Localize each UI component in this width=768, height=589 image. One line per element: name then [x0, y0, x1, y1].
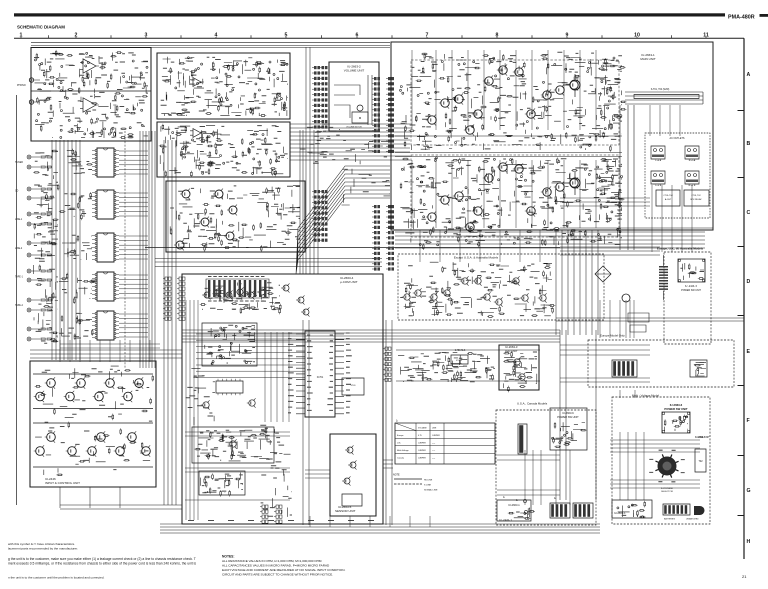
- svg-text:6: 6: [356, 33, 359, 39]
- svg-text:Δ: Δ: [396, 420, 398, 423]
- svg-text:FUSE UNIT: FUSE UNIT: [697, 437, 710, 439]
- svg-text:IU -2443- 6: IU -2443- 6: [685, 285, 698, 288]
- svg-text:A-CHT: A-CHT: [665, 198, 672, 201]
- svg-text:MAIN UNIT: MAIN UNIT: [640, 57, 656, 61]
- svg-text:CD: CD: [15, 191, 19, 193]
- svg-text:IU-2663-1: IU-2663-1: [508, 503, 520, 507]
- svg-text:LINE-2: LINE-2: [15, 248, 23, 250]
- svg-text:CT01,T02: CT01,T02: [691, 195, 701, 197]
- svg-text:JUMPER: JUMPER: [418, 458, 426, 460]
- svg-text:IU -2443- 1: IU -2443- 1: [499, 518, 513, 522]
- svg-text:-----: -----: [432, 458, 436, 460]
- svg-text:-----: -----: [432, 443, 436, 445]
- svg-text:U.S.: U.S.: [397, 443, 401, 445]
- svg-text:-----: -----: [432, 450, 436, 452]
- svg-text:X701: X701: [350, 385, 356, 387]
- svg-text:Multi-Voltage: Multi-Voltage: [397, 449, 409, 452]
- svg-text:4.75: 4.75: [418, 435, 422, 437]
- svg-text:LED UNIT: LED UNIT: [505, 349, 518, 353]
- svg-text:VOLUME UNIT: VOLUME UNIT: [344, 69, 365, 73]
- svg-text:21: 21: [742, 574, 747, 579]
- svg-text:POWER SW UNIT: POWER SW UNIT: [557, 415, 579, 419]
- svg-text:PHONO: PHONO: [17, 84, 26, 87]
- svg-text:CIRCUIT AND PARTS ARE SUBJECT: CIRCUIT AND PARTS ARE SUBJECT TO CHANGE …: [222, 573, 333, 577]
- svg-text:VOLTAGE: VOLTAGE: [418, 426, 427, 429]
- svg-text:R-ch B: R-ch B: [689, 185, 696, 187]
- svg-text:IU-2663-1: IU-2663-1: [614, 511, 626, 515]
- svg-text:SELECTOR: SELECTOR: [661, 491, 673, 493]
- svg-text:M: M: [359, 116, 362, 120]
- svg-text:NOTES:: NOTES:: [222, 555, 234, 559]
- svg-text:G: G: [747, 488, 751, 494]
- svg-text:JUMPER: JUMPER: [432, 435, 440, 437]
- svg-text:SENSOR UNIT: SENSOR UNIT: [335, 509, 356, 513]
- svg-text:D: D: [747, 279, 751, 285]
- svg-text:SPK RELAY: SPK RELAY: [690, 198, 702, 201]
- svg-text:H0 LINE: H0 LINE: [424, 480, 433, 482]
- svg-text:L-ch A: L-ch A: [655, 159, 662, 162]
- svg-text:TAPE-2: TAPE-2: [15, 304, 24, 307]
- svg-text:Δ: Δ: [503, 496, 505, 499]
- svg-text:VOLUME MOTOR: VOLUME MOTOR: [346, 127, 362, 129]
- svg-text:LINE: LINE: [432, 427, 437, 429]
- svg-text:5: 5: [285, 33, 288, 39]
- svg-text:Except U.S.A. & Australia Mode: Except U.S.A. & Australia Models: [454, 256, 499, 260]
- svg-text:LINE-1: LINE-1: [15, 219, 23, 221]
- svg-text:3: 3: [145, 33, 148, 39]
- svg-text:POWER SW UNIT: POWER SW UNIT: [681, 289, 701, 292]
- svg-text:U.S.A., Canada Models: U.S.A., Canada Models: [517, 402, 548, 406]
- svg-text:AC OUTLETS: AC OUTLETS: [669, 137, 684, 140]
- svg-text:S LINE: S LINE: [424, 485, 431, 487]
- svg-text:11: 11: [703, 33, 709, 39]
- svg-text:INPUT & CONTROL UNIT: INPUT & CONTROL UNIT: [45, 481, 80, 485]
- svg-text:Europe Model Only: Europe Model Only: [600, 334, 625, 338]
- svg-text:Multi - Voltage Model: Multi - Voltage Model: [632, 394, 659, 398]
- svg-text:IL780-5LS: IL780-5LS: [455, 350, 466, 352]
- svg-text:7: 7: [426, 33, 429, 39]
- svg-text:ALL CAPACITANCES VALUES IN MIC: ALL CAPACITANCES VALUES IN MICRO FARAD, …: [222, 564, 330, 568]
- svg-text:Canada: Canada: [397, 458, 405, 460]
- svg-text:BATTERIES: BATTERIES: [664, 518, 676, 521]
- svg-text:ALL RESISTANCE VALUES IN OHM,: ALL RESISTANCE VALUES IN OHM, k=1,000 OH…: [222, 559, 322, 563]
- svg-text:ment exceeds 0.5 milliamps, or: ment exceeds 0.5 milliamps, or if the re…: [8, 562, 196, 566]
- svg-text:L-ch B: L-ch B: [655, 185, 662, 187]
- svg-text:EACH VOLTAGE AND CURRENT ARE M: EACH VOLTAGE AND CURRENT ARE MEASURED AT…: [222, 568, 345, 572]
- svg-text:R-ch A: R-ch A: [689, 159, 696, 162]
- svg-text:1: 1: [20, 33, 23, 39]
- svg-text:μ-COM UNIT: μ-COM UNIT: [340, 280, 358, 284]
- svg-text:lacement parts recommended by: lacement parts recommended by the manufa…: [8, 547, 78, 551]
- svg-text:IC701: IC701: [456, 360, 463, 362]
- svg-text:F: F: [747, 418, 750, 424]
- svg-text:JUMPER: JUMPER: [418, 450, 426, 452]
- svg-text:n the unit is to the customer: n the unit is to the customer until the …: [8, 576, 104, 580]
- svg-text:Δ VOLTAGE: Δ VOLTAGE: [661, 487, 673, 490]
- svg-text:NOTE: NOTE: [393, 474, 400, 477]
- svg-text:UNMATCHED: UNMATCHED: [686, 518, 699, 521]
- svg-text:Europe: Europe: [397, 435, 404, 437]
- svg-text:SCHEMATIC DIAGRAM: SCHEMATIC DIAGRAM: [17, 25, 65, 30]
- svg-text:A: A: [747, 72, 751, 78]
- svg-text:B: B: [747, 141, 751, 147]
- svg-text:IU-2663-6: IU-2663-6: [562, 411, 574, 415]
- svg-text:POWER SW UNIT: POWER SW UNIT: [664, 407, 687, 411]
- svg-text:10: 10: [634, 33, 640, 39]
- svg-text:Δ: Δ: [516, 499, 518, 502]
- svg-text:4: 4: [215, 33, 218, 39]
- svg-text:PMA-480R: PMA-480R: [728, 15, 755, 21]
- svg-text:T02: T02: [698, 460, 703, 463]
- svg-text:Europe, U.K., W. Australia Mo: Europe, U.K., W. Australia Models: [657, 247, 704, 251]
- svg-text:SIGNAL LINE: SIGNAL LINE: [424, 489, 438, 492]
- svg-text:C: C: [747, 210, 751, 216]
- svg-text:E: E: [747, 349, 751, 355]
- svg-text:8: 8: [496, 33, 499, 39]
- svg-text:g the unit is to the customer,: g the unit is to the customer, make sure…: [8, 557, 196, 561]
- svg-text:with this symbol Δ ▭ have crit: with this symbol Δ ▭ have critical chara…: [8, 542, 75, 546]
- svg-text:CT01-T04: CT01-T04: [663, 195, 673, 197]
- svg-text:S-T01, T04 (S2W): S-T01, T04 (S2W): [651, 89, 670, 91]
- svg-text:9: 9: [566, 33, 569, 39]
- svg-text:TUNER: TUNER: [15, 162, 23, 164]
- svg-text:Δ: Δ: [554, 497, 556, 500]
- svg-text:H: H: [747, 539, 751, 545]
- svg-text:TAPE-1: TAPE-1: [15, 275, 24, 278]
- svg-text:2: 2: [75, 33, 78, 39]
- svg-text:IC701: IC701: [317, 376, 324, 379]
- svg-text:JUMPER: JUMPER: [418, 443, 426, 445]
